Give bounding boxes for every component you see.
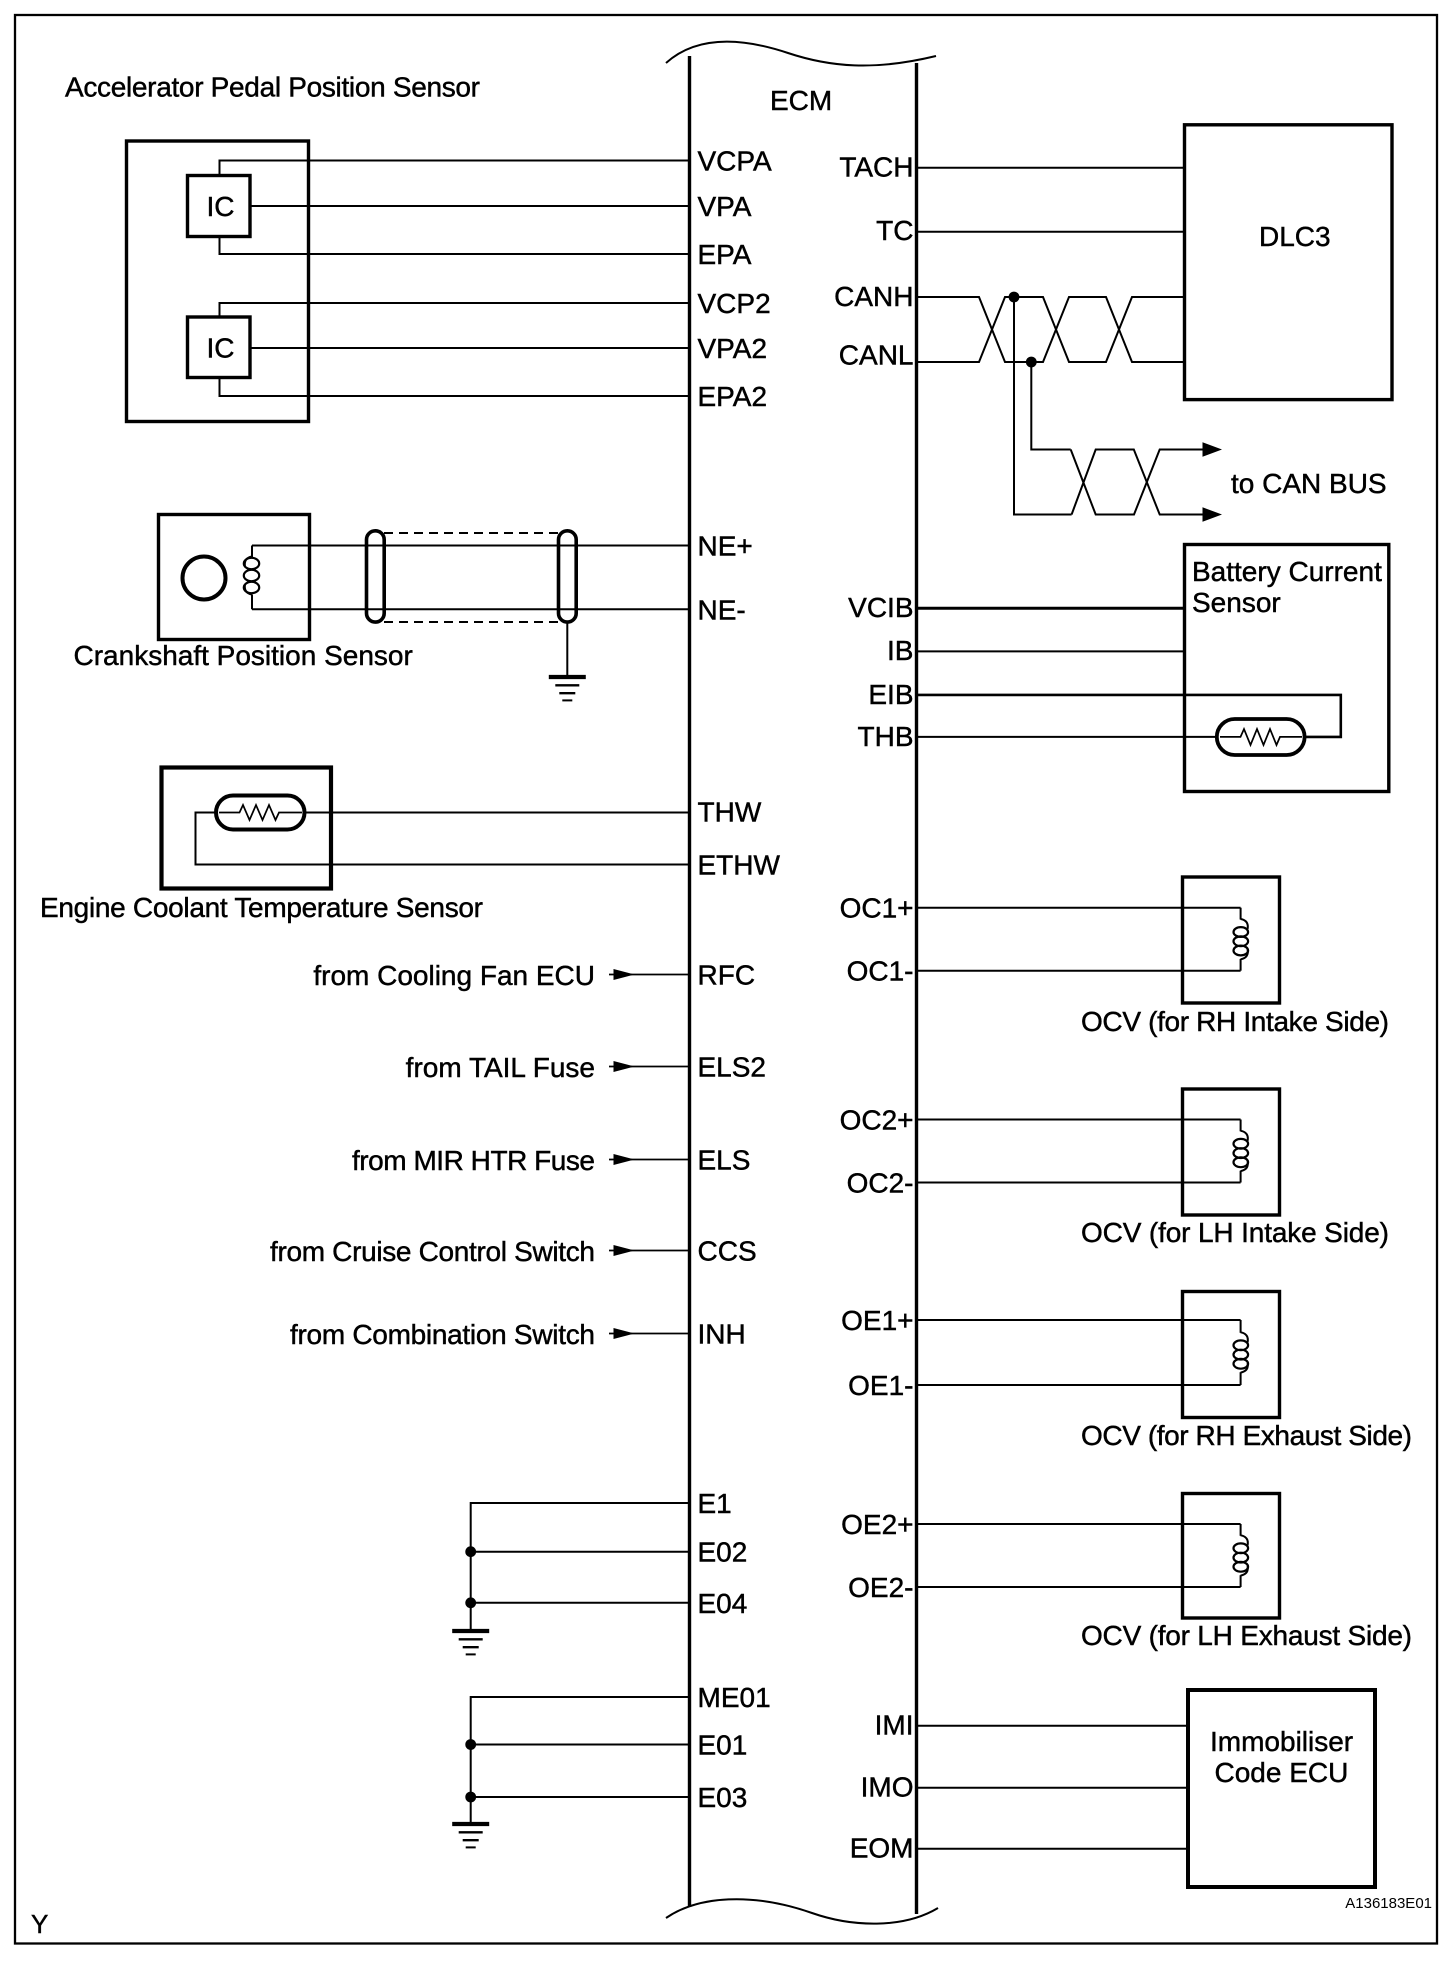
- crankshaft position sensor box: [159, 515, 310, 640]
- junction dot E04: [465, 1597, 476, 1608]
- wire TACH: [917, 167, 1185, 169]
- arrowhead CAN BUS upper: [1203, 442, 1223, 456]
- CAN twisted pair wire B (CANL): [917, 297, 1185, 362]
- junction dot E01: [465, 1739, 476, 1750]
- wire EOM: [917, 1848, 1189, 1850]
- svg-text:IC: IC: [207, 333, 235, 364]
- shunt resistor body (battery current sensor): [1217, 719, 1305, 755]
- svg-text:ETHW: ETHW: [698, 850, 781, 881]
- CAN BUS branch wire right: [1031, 362, 1070, 450]
- OCV RH exhaust solenoid coil: [1234, 1320, 1249, 1385]
- svg-text:OE2-: OE2-: [848, 1572, 913, 1603]
- OCV RH intake box: [1183, 877, 1280, 1003]
- svg-text:IMI: IMI: [875, 1710, 914, 1741]
- svg-text:Code ECU: Code ECU: [1215, 1757, 1349, 1788]
- wire OE2-: [917, 1586, 1241, 1588]
- shield dashed line top: [384, 532, 560, 534]
- wire OC1-: [917, 970, 1241, 972]
- OCV LH intake box: [1183, 1089, 1280, 1215]
- svg-text:OCV (for LH Exhaust Side): OCV (for LH Exhaust Side): [1081, 1620, 1412, 1651]
- CAN BUS twisted pair lower wire: [1072, 450, 1204, 515]
- wire INH with arrow: [609, 1328, 690, 1339]
- shield dashed line bottom: [384, 621, 560, 623]
- CAN BUS branch wire left: [1014, 297, 1072, 515]
- ECM left boundary line: [688, 56, 691, 1907]
- svg-text:RFC: RFC: [698, 960, 756, 991]
- ECM right boundary line: [915, 63, 918, 1914]
- svg-text:TACH: TACH: [839, 152, 913, 183]
- wire OC1+: [917, 907, 1241, 909]
- ECM top break (wavy line): [666, 42, 936, 66]
- svg-text:VPA2: VPA2: [698, 333, 768, 364]
- ECM bottom break (wavy line): [666, 1899, 938, 1923]
- junction dot E02: [465, 1546, 476, 1557]
- wire EIB: [917, 695, 1341, 737]
- svg-text:VCP2: VCP2: [698, 288, 771, 319]
- wire VCIB: [917, 607, 1185, 610]
- svg-text:E1: E1: [698, 1488, 732, 1519]
- svg-text:from Cooling Fan ECU: from Cooling Fan ECU: [313, 960, 595, 991]
- OCV RH intake solenoid coil: [1234, 908, 1249, 971]
- immobiliser code ECU box: [1188, 1690, 1375, 1887]
- wire ELS2 with arrow: [609, 1061, 690, 1072]
- wire E04: [471, 1602, 690, 1604]
- wire IB: [917, 650, 1185, 652]
- wire CCS with arrow: [609, 1245, 690, 1256]
- svg-text:VPA: VPA: [698, 191, 752, 222]
- svg-text:THW: THW: [698, 797, 762, 828]
- wire ELS with arrow: [609, 1154, 690, 1165]
- junction dot CANL branch: [1026, 357, 1037, 368]
- wire VPA: [250, 205, 690, 207]
- wire NE-: [252, 608, 690, 610]
- svg-text:CANL: CANL: [839, 340, 914, 371]
- junction dot E03: [465, 1792, 476, 1803]
- svg-text:OC2-: OC2-: [847, 1168, 914, 1199]
- svg-text:VCIB: VCIB: [848, 592, 913, 623]
- svg-text:Battery Current: Battery Current: [1192, 556, 1382, 587]
- wire OC2+: [917, 1119, 1241, 1121]
- svg-text:E03: E03: [698, 1782, 748, 1813]
- svg-text:DLC3: DLC3: [1259, 221, 1331, 252]
- wire VCPA: [220, 161, 690, 176]
- svg-text:NE+: NE+: [698, 531, 753, 562]
- wire ME01: [471, 1697, 690, 1824]
- battery current sensor box: [1185, 545, 1389, 792]
- OCV LH exhaust solenoid coil: [1234, 1524, 1249, 1587]
- wire RFC with arrow: [609, 969, 690, 980]
- svg-text:CANH: CANH: [834, 281, 913, 312]
- svg-text:EPA2: EPA2: [698, 381, 768, 412]
- crankshaft pickup coil: [244, 546, 259, 610]
- OCV RH exhaust box: [1183, 1292, 1280, 1418]
- OCV LH exhaust box: [1183, 1494, 1280, 1619]
- wire VCP2: [220, 303, 690, 317]
- wire OE1+: [917, 1319, 1241, 1321]
- svg-text:IMO: IMO: [861, 1772, 914, 1803]
- shield connector ring left: [367, 531, 385, 622]
- svg-text:Accelerator Pedal Position Sen: Accelerator Pedal Position Sensor: [65, 72, 480, 103]
- svg-text:Crankshaft Position Sensor: Crankshaft Position Sensor: [74, 640, 413, 671]
- svg-text:Y: Y: [31, 1909, 48, 1939]
- wire THW: [305, 812, 690, 814]
- svg-text:CCS: CCS: [698, 1236, 757, 1267]
- crankshaft sensor rotor circle: [183, 557, 226, 600]
- svg-text:ME01: ME01: [698, 1682, 771, 1713]
- svg-text:TC: TC: [876, 215, 913, 246]
- thermistor element zigzag (ECT): [219, 805, 302, 820]
- svg-text:OCV (for RH Exhaust Side): OCV (for RH Exhaust Side): [1081, 1420, 1412, 1451]
- wire IMI: [917, 1725, 1189, 1727]
- shield connector ring right: [559, 531, 577, 622]
- shunt resistor zigzag: [1220, 729, 1302, 745]
- wire OE1-: [917, 1384, 1241, 1386]
- svg-text:EPA: EPA: [698, 239, 752, 270]
- svg-text:EOM: EOM: [850, 1833, 914, 1864]
- svg-text:ELS2: ELS2: [698, 1052, 767, 1083]
- ground symbol (E1/E02/E04): [452, 1631, 489, 1654]
- svg-text:OCV (for RH Intake Side): OCV (for RH Intake Side): [1081, 1006, 1389, 1037]
- svg-text:INH: INH: [698, 1319, 746, 1350]
- svg-text:E04: E04: [698, 1588, 748, 1619]
- wire OC2-: [917, 1182, 1241, 1184]
- wire E02: [471, 1551, 690, 1553]
- wire E1: [471, 1503, 690, 1631]
- svg-text:from Cruise Control Switch: from Cruise Control Switch: [270, 1236, 595, 1267]
- svg-text:OCV (for LH Intake Side): OCV (for LH Intake Side): [1081, 1217, 1389, 1248]
- wire ETHW: [196, 813, 690, 865]
- svg-text:Engine Coolant Temperature Sen: Engine Coolant Temperature Sensor: [40, 892, 483, 923]
- arrowhead CAN BUS lower: [1203, 507, 1223, 521]
- svg-text:E01: E01: [698, 1730, 748, 1761]
- IC chip 2 box: [188, 317, 251, 378]
- svg-text:IB: IB: [887, 635, 913, 666]
- svg-text:IC: IC: [207, 191, 235, 222]
- svg-text:THB: THB: [858, 721, 914, 752]
- wire THB: [917, 736, 1219, 738]
- svg-text:NE-: NE-: [698, 595, 746, 626]
- DLC3 box: [1185, 125, 1393, 400]
- accelerator pedal position sensor box: [127, 141, 309, 422]
- svg-text:Immobiliser: Immobiliser: [1210, 1726, 1353, 1757]
- thermistor body (ECT): [216, 796, 305, 830]
- svg-text:ELS: ELS: [698, 1145, 751, 1176]
- engine coolant temperature sensor box: [162, 768, 332, 889]
- junction dot CANH branch: [1009, 292, 1020, 303]
- svg-text:EIB: EIB: [868, 679, 913, 710]
- shield ground wire: [566, 622, 568, 677]
- wire TC: [917, 231, 1185, 233]
- svg-text:from TAIL Fuse: from TAIL Fuse: [406, 1052, 595, 1083]
- svg-text:A136183E01: A136183E01: [1345, 1895, 1432, 1912]
- svg-text:OE1+: OE1+: [841, 1305, 913, 1336]
- svg-text:from Combination Switch: from Combination Switch: [290, 1319, 595, 1350]
- CAN twisted pair wire A (CANH): [917, 297, 1185, 362]
- ground symbol (ME01/E01/E03): [452, 1824, 489, 1847]
- CAN BUS twisted pair upper wire: [1071, 450, 1204, 515]
- svg-text:E02: E02: [698, 1537, 748, 1568]
- svg-text:from MIR HTR Fuse: from MIR HTR Fuse: [352, 1145, 595, 1176]
- svg-text:to CAN BUS: to CAN BUS: [1231, 468, 1387, 499]
- svg-text:Sensor: Sensor: [1192, 587, 1281, 618]
- IC chip 1 box: [188, 176, 251, 237]
- svg-text:OC2+: OC2+: [840, 1105, 914, 1136]
- wire VPA2: [250, 347, 690, 349]
- svg-text:OE2+: OE2+: [841, 1509, 913, 1540]
- svg-text:OE1-: OE1-: [848, 1370, 913, 1401]
- wire OE2+: [917, 1523, 1241, 1525]
- svg-text:OC1+: OC1+: [840, 893, 914, 924]
- svg-text:ECM: ECM: [770, 85, 832, 116]
- wire IMO: [917, 1787, 1189, 1789]
- wire EPA2: [220, 378, 690, 397]
- wire E01: [471, 1744, 690, 1746]
- wire EPA: [220, 237, 690, 255]
- wire E03: [471, 1796, 690, 1798]
- ground symbol (shield): [549, 677, 586, 700]
- svg-text:VCPA: VCPA: [698, 146, 772, 177]
- wire NE+: [252, 545, 690, 547]
- OCV LH intake solenoid coil: [1234, 1120, 1249, 1183]
- svg-text:OC1-: OC1-: [847, 956, 914, 987]
